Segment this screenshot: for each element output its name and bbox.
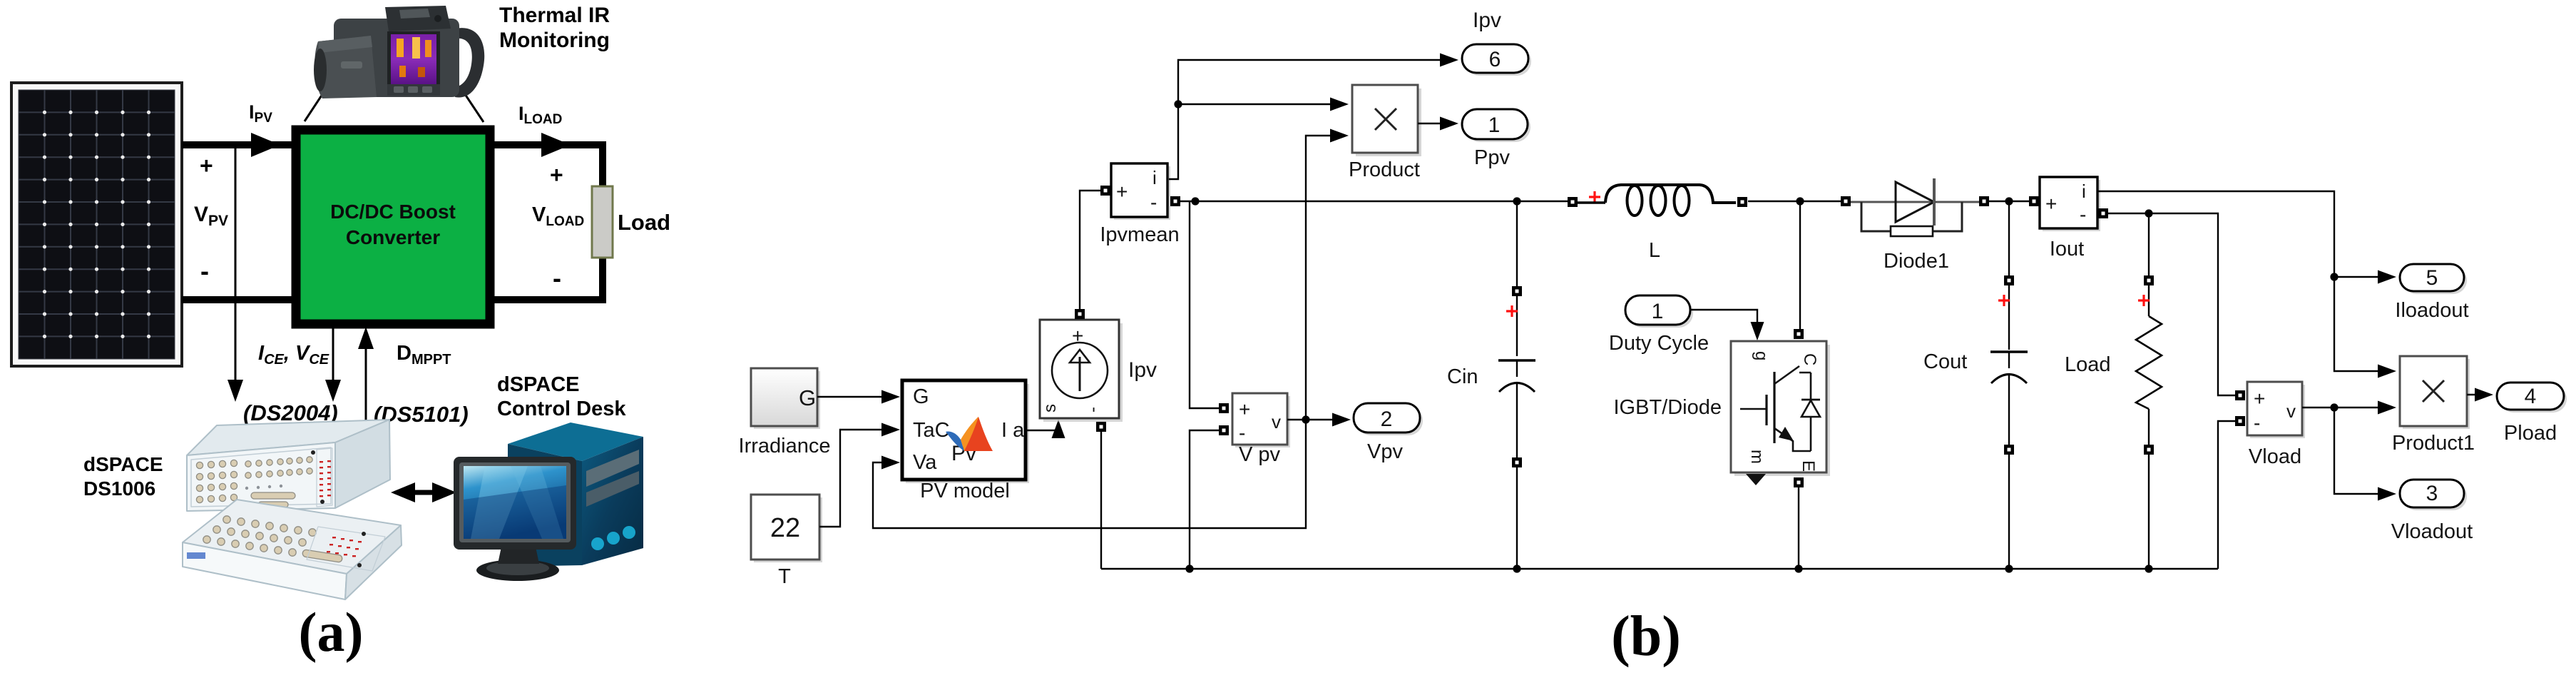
svg-text:(a): (a) — [299, 601, 364, 663]
svg-text:PV model: PV model — [920, 480, 1010, 502]
svg-text:Load: Load — [2065, 353, 2111, 376]
svg-text:-: - — [200, 256, 209, 285]
wire Ipvmean i up and right to outport 6 — [1169, 60, 1446, 179]
svg-text:E: E — [1799, 460, 1818, 472]
resistor Load — [2136, 213, 2162, 569]
wire L to diode — [1748, 201, 1841, 202]
svg-text:+: + — [200, 153, 213, 178]
wire branch to Product input 1 — [1178, 103, 1335, 105]
ground rail — [1101, 568, 2218, 570]
svg-text:Ipv: Ipv — [1473, 9, 1501, 32]
svg-text:dSPACE: dSPACE — [497, 373, 579, 396]
capacitor Cin — [1498, 201, 1535, 569]
wire source minus to rail — [1100, 432, 1102, 569]
svg-text:Irradiance: Irradiance — [739, 435, 831, 457]
wire v out to outport 2 — [1287, 419, 1338, 420]
junction dot Cout tap — [2005, 197, 2013, 205]
diode Diode1 — [1841, 178, 1989, 236]
wire Product1 to outport 4 — [2467, 394, 2483, 395]
outport 5 — [2400, 264, 2467, 294]
wire G to PV model — [817, 396, 884, 398]
red plus L — [1589, 191, 1600, 203]
svg-text:-: - — [1150, 191, 1157, 213]
svg-text:Vloadout: Vloadout — [2391, 520, 2473, 543]
junction dot v out — [2330, 403, 2338, 411]
wire source plus to Ipvmean — [1080, 191, 1100, 314]
wire PV plus to converter — [182, 141, 296, 148]
outport 6 — [1462, 44, 1531, 76]
svg-text:Load: Load — [618, 210, 670, 235]
current sensor Iout — [2040, 177, 2100, 231]
outport 1 — [1462, 109, 1530, 142]
svg-text:6: 6 — [1489, 48, 1501, 71]
wire down to IGBT collector — [1799, 201, 1801, 329]
junction dot i branch — [1174, 100, 1182, 108]
svg-text:Converter: Converter — [346, 226, 440, 248]
DC/DC boost converter block — [296, 130, 490, 324]
wire Product to outport 1 — [1418, 123, 1446, 124]
wire Dmppt up arrow — [365, 341, 367, 425]
wire Vload minus to rail — [2218, 421, 2235, 569]
junction dot Load tap — [2145, 209, 2152, 217]
svg-text:-: - — [1239, 422, 1245, 444]
block Product1 — [2400, 356, 2470, 429]
svg-text:Iloadout: Iloadout — [2395, 299, 2468, 322]
junction dot i branch — [2330, 273, 2338, 280]
svg-text:Cout: Cout — [1923, 350, 1967, 373]
svg-text:Pload: Pload — [2504, 422, 2557, 445]
constant block G — [751, 368, 820, 429]
wire Vpv feedback to Va — [873, 420, 1306, 528]
block Product — [1352, 85, 1421, 156]
constant block 22 — [751, 495, 822, 562]
svg-text:Thermal IR: Thermal IR — [499, 4, 610, 27]
resistor Load — [592, 186, 613, 258]
block PV model — [902, 380, 1029, 483]
svg-text:s: s — [1041, 404, 1060, 413]
wire 22 to PV model TaC — [819, 430, 884, 527]
svg-text:1: 1 — [1652, 300, 1664, 323]
svg-text:DS1006: DS1006 — [83, 477, 155, 500]
svg-text:G: G — [913, 385, 929, 408]
wire Vload v out — [2302, 407, 2386, 408]
svg-text:m: m — [1747, 450, 1767, 464]
wire branch to outport 5 — [2334, 276, 2386, 278]
svg-text:Duty Cycle: Duty Cycle — [1609, 332, 1709, 355]
outport 3 — [2400, 480, 2467, 510]
svg-text:+: + — [1239, 398, 1250, 420]
svg-text:v: v — [1272, 411, 1281, 432]
svg-text:-: - — [553, 263, 561, 293]
svg-text:DC/DC Boost: DC/DC Boost — [330, 201, 456, 223]
thermal camera callout line left — [305, 88, 327, 121]
outport 4 — [2497, 383, 2567, 413]
svg-text:I a: I a — [1001, 419, 1025, 442]
junction dot v out — [1302, 415, 1309, 423]
svg-text:Diode1: Diode1 — [1884, 250, 1949, 273]
svg-text:Va: Va — [913, 451, 937, 474]
wire converter to load top — [490, 145, 603, 190]
dSPACE control desk PC — [454, 422, 643, 581]
svg-text:v: v — [2286, 400, 2296, 422]
svg-text:5: 5 — [2426, 266, 2438, 290]
current sensor Ipvmean — [1111, 163, 1170, 220]
voltage sensor Vload — [2247, 382, 2305, 438]
wire tap Ice Vce right — [332, 325, 334, 389]
svg-text:i: i — [2082, 181, 2086, 202]
svg-text:G: G — [799, 385, 816, 410]
inductor L — [1568, 185, 1747, 216]
svg-text:Iout: Iout — [2050, 238, 2084, 260]
svg-text:-: - — [2254, 412, 2260, 434]
svg-text:+: + — [550, 162, 563, 188]
rail junction dots — [1185, 565, 1193, 572]
svg-text:22: 22 — [770, 513, 800, 543]
capacitor Cout — [1990, 201, 2028, 569]
svg-text:T: T — [778, 565, 791, 588]
svg-text:4: 4 — [2525, 385, 2537, 408]
arrow Ipv — [251, 133, 280, 157]
svg-text:L: L — [1649, 239, 1660, 262]
svg-text:-: - — [2080, 203, 2086, 226]
wire Iout minus to Vload plus — [2108, 213, 2235, 395]
svg-text:Cin: Cin — [1447, 365, 1478, 388]
wire Ipvmean out main node — [1180, 201, 1569, 202]
svg-text:+: + — [2045, 193, 2057, 215]
wire tap Ice Vce left — [235, 147, 237, 389]
svg-text:1: 1 — [1488, 113, 1501, 137]
svg-text:+: + — [2254, 388, 2265, 410]
wire Vpv plus tap — [1190, 201, 1221, 408]
svg-text:i: i — [1152, 167, 1157, 188]
svg-text:3: 3 — [2426, 482, 2438, 505]
junction dot IGBT tap — [1796, 197, 1804, 205]
wire converter to load bottom — [490, 254, 603, 300]
svg-text:Ppv: Ppv — [1474, 146, 1510, 169]
svg-text:-: - — [1083, 407, 1103, 413]
wire diode to Iout — [1989, 201, 2029, 202]
wire PV minus to converter — [182, 296, 296, 303]
svg-text:(b): (b) — [1611, 605, 1681, 668]
wire branch to outport 3 — [2334, 408, 2386, 494]
junction dot Cin tap — [1513, 197, 1520, 205]
arrow Iload — [541, 133, 571, 157]
wire Ia to source s input — [1026, 430, 1058, 437]
voltage sensor V pv — [1232, 393, 1290, 447]
wire Vpv minus down to rail — [1190, 430, 1221, 569]
svg-text:+: + — [1116, 181, 1128, 203]
svg-text:C: C — [1800, 353, 1819, 365]
IGBT Diode block — [1731, 341, 1830, 476]
svg-text:Ipv: Ipv — [1128, 358, 1157, 382]
svg-text:IGBT/Diode: IGBT/Diode — [1614, 396, 1722, 419]
svg-text:V pv: V pv — [1239, 443, 1281, 466]
svg-text:Product1: Product1 — [2392, 432, 2475, 455]
svg-text:Control Desk: Control Desk — [497, 398, 626, 420]
thermal camera callout line right — [461, 88, 484, 122]
wire duty cycle to gate — [1690, 310, 1757, 323]
bidirectional arrow rack to PC — [391, 482, 456, 502]
svg-text:Monitoring: Monitoring — [499, 29, 610, 52]
dSPACE DS1006 rack — [183, 420, 402, 599]
svg-text:Vload: Vload — [2249, 445, 2301, 468]
wire IGBT emitter to rail — [1798, 487, 1799, 569]
svg-text:TaC: TaC — [913, 419, 950, 442]
svg-text:Ipvmean: Ipvmean — [1100, 223, 1179, 246]
svg-text:Product: Product — [1349, 158, 1420, 181]
wire Vpv signal up to Product input 2 — [1306, 136, 1335, 420]
outport 2 — [1354, 403, 1423, 435]
thermal IR camera — [314, 6, 484, 98]
PV panel — [11, 83, 182, 366]
wire Iout i to Iloadout and Product1 — [2097, 191, 2386, 371]
svg-text:dSPACE: dSPACE — [83, 453, 163, 475]
IGBT m arrow — [1746, 474, 1766, 485]
svg-text:2: 2 — [1381, 408, 1393, 431]
inport Duty Cycle — [1625, 295, 1693, 328]
controlled current source Ipv — [1040, 320, 1123, 422]
svg-text:Vpv: Vpv — [1367, 440, 1403, 463]
junction dot main node — [1191, 197, 1199, 205]
svg-text:g: g — [1752, 351, 1771, 360]
